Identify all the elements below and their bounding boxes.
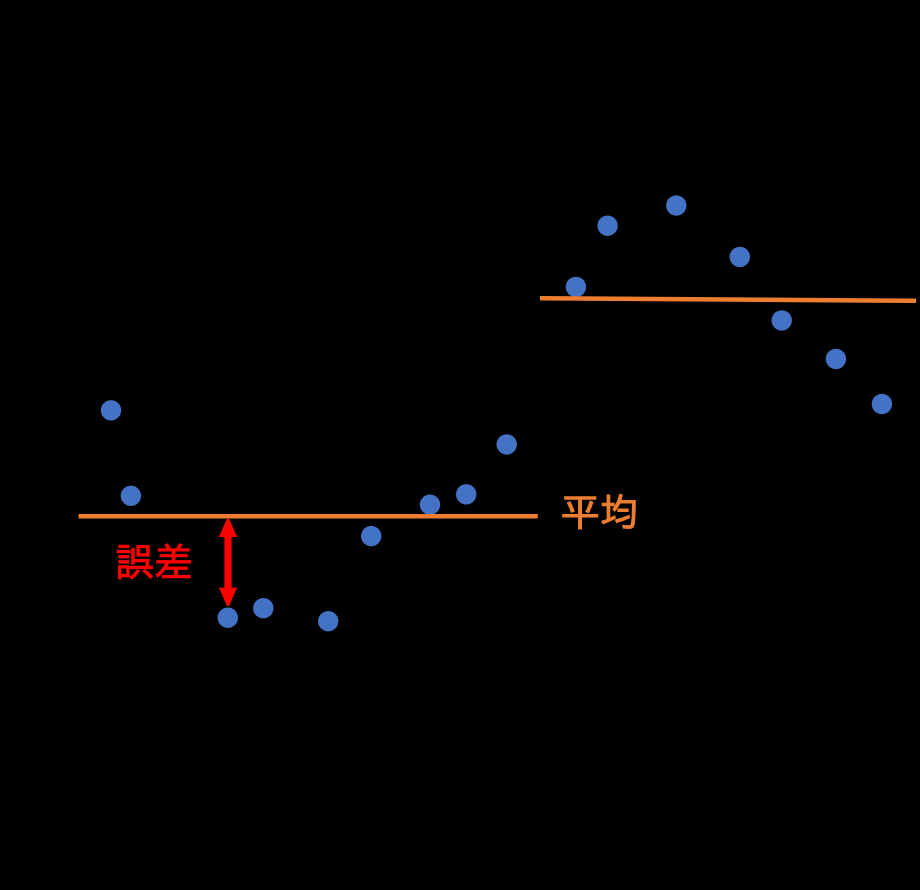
data point 13	[730, 247, 750, 267]
data point 12	[666, 195, 686, 215]
data point 8	[456, 484, 476, 504]
data point 6	[361, 526, 381, 546]
label "平均" : glyph 均	[602, 494, 636, 528]
error arrow (red double-headed)	[219, 519, 237, 606]
label "平均" : glyph 平	[563, 497, 598, 529]
data point 1	[101, 400, 121, 420]
data point 11	[597, 216, 617, 236]
data point 15	[826, 349, 846, 369]
data point 7	[420, 495, 440, 515]
data point 9	[497, 434, 517, 454]
data point 14	[772, 310, 792, 330]
mean line (left group)	[79, 514, 538, 519]
data point 16	[872, 394, 892, 414]
data point 3	[218, 608, 238, 628]
mean line (right group)	[540, 298, 916, 301]
label "誤差" : glyph 差	[156, 544, 191, 578]
data point 5	[318, 611, 338, 631]
data point 2	[121, 486, 141, 506]
data point 10	[566, 277, 586, 297]
label "誤差" : glyph 誤	[117, 545, 152, 579]
data point 4	[253, 598, 273, 618]
